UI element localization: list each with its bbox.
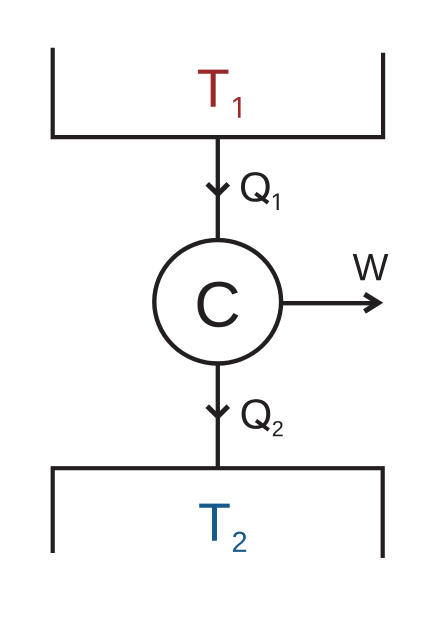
hot reservoir T1 (open-bottom bracket) — [51, 48, 386, 137]
arrowhead W — [365, 294, 379, 311]
label T2 — [199, 504, 230, 541]
label Q2 — [242, 399, 271, 431]
label C — [197, 282, 238, 328]
arrowhead Q1 — [207, 184, 228, 194]
label W — [353, 254, 389, 280]
wire Q1 (hot reservoir to engine) — [216, 137, 220, 240]
wire W (engine output) — [281, 301, 375, 305]
arrowhead Q2 — [207, 406, 228, 416]
label T1 subscript 1 — [233, 97, 240, 118]
label T2 subscript 2 — [233, 532, 246, 552]
label Q1 — [241, 172, 270, 204]
cold reservoir T2 (open-top bracket) — [51, 468, 385, 558]
label Q1 subscript 1 — [273, 193, 279, 210]
engine circle C — [154, 240, 281, 363]
wire Q2 (engine to cold reservoir) — [216, 364, 220, 468]
label T1 — [198, 70, 229, 107]
label Q2 subscript 2 — [273, 421, 283, 436]
